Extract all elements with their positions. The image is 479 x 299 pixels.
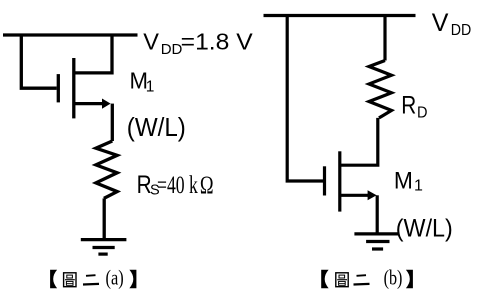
svg-text:V: V xyxy=(143,29,159,55)
svg-text:DD: DD xyxy=(451,22,472,39)
resistor RD zigzag xyxy=(369,61,392,118)
wire: source lead (b) xyxy=(340,194,369,197)
ground (a) xyxy=(81,240,127,255)
svg-text:R: R xyxy=(401,92,416,120)
label RD (b) xyxy=(401,92,427,122)
svg-text:(b): (b) xyxy=(384,266,403,290)
svg-text:1: 1 xyxy=(146,79,155,96)
resistor RS zigzag xyxy=(96,141,117,198)
wire: rail down to resistor RD xyxy=(383,16,386,61)
svg-text:1: 1 xyxy=(414,177,423,194)
transistor M1 (a) channel bar xyxy=(72,58,75,118)
svg-text:(a): (a) xyxy=(106,266,124,290)
svg-text:DD: DD xyxy=(161,41,183,58)
svg-text:=1.8 V: =1.8 V xyxy=(181,29,253,55)
wire: resistor RD down to drain xyxy=(340,118,378,165)
caption (b): character ER (two) xyxy=(354,275,370,284)
transistor M1 (b) channel bar xyxy=(338,151,341,211)
label RS=40 kOhm (a) xyxy=(137,171,214,199)
label M1 (a) xyxy=(130,68,155,96)
wire: rail down-left to gate xyxy=(21,35,56,88)
wire: source down to resistor xyxy=(111,104,114,141)
wire: VDD rail (a) xyxy=(3,33,138,36)
caption (b): character TU (figure) xyxy=(336,273,348,287)
svg-text:D: D xyxy=(417,104,428,121)
label M1 (b) xyxy=(394,168,423,195)
transistor M1 (a) source arrow xyxy=(102,99,111,109)
caption (a): character TU (figure) xyxy=(64,273,76,287)
caption (b): right lenticular bracket xyxy=(406,270,413,288)
transistor M1 (b) source arrow xyxy=(368,190,377,200)
caption (a): character ER (two) xyxy=(83,275,99,284)
wire: VDD rail (b) xyxy=(264,14,416,17)
svg-text:V: V xyxy=(432,9,449,37)
wire: source lead xyxy=(74,102,103,105)
transistor M1 (a) gate bar xyxy=(57,74,60,102)
caption (a): left lenticular bracket xyxy=(50,270,57,288)
wire: rail down-left to gate (b) xyxy=(287,16,323,182)
ground (b) xyxy=(354,234,399,249)
svg-text:(W/L): (W/L) xyxy=(396,215,453,243)
label VDD (b) xyxy=(432,9,472,39)
label VDD=1.8 V (a) xyxy=(143,29,253,58)
wire: source down to ground (b) xyxy=(376,195,379,234)
svg-text:(W/L): (W/L) xyxy=(127,114,186,142)
svg-text:=40 k: =40 k xyxy=(157,172,198,199)
wire: drain up to rail xyxy=(74,35,112,73)
wire: resistor to ground xyxy=(103,198,106,239)
caption (a): right lenticular bracket xyxy=(129,270,136,288)
transistor M1 (b) gate bar xyxy=(323,166,326,195)
caption (b): left lenticular bracket xyxy=(321,270,328,288)
svg-text:M: M xyxy=(394,168,413,195)
svg-text:Ω: Ω xyxy=(200,172,214,199)
